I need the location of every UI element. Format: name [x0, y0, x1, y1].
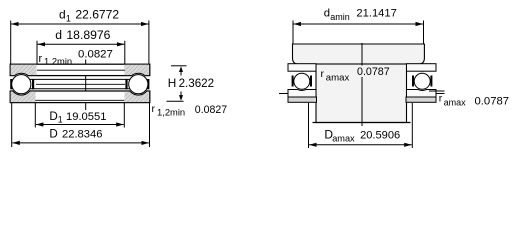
H bottom arrow — [179, 95, 183, 101]
svg-text:r: r — [152, 103, 156, 115]
leader line r12min (vertical centre-ish line through bearing) — [85, 60, 87, 111]
extension line damin left — [292, 21, 294, 45]
cage pocket left of right ball — [412, 76, 414, 87]
projected raceway line in bottom washer bore region — [35, 99, 124, 101]
cage pocket right of left ball — [310, 76, 312, 87]
svg-text:D: D — [49, 110, 57, 123]
bottom washer hatched right section — [125, 92, 149, 103]
H bottom leader line — [167, 100, 184, 102]
housing floor line — [313, 122, 411, 124]
svg-text:0.0827: 0.0827 — [195, 104, 228, 116]
svg-text:r: r — [439, 93, 443, 105]
extension line damin right — [423, 21, 425, 45]
projected ball equator line through bore — [36, 83, 125, 85]
ball right — [129, 75, 148, 94]
dimension line damin — [294, 23, 424, 25]
dimension line d — [38, 43, 125, 45]
cage upper line through bore — [30, 78, 131, 80]
svg-text:d: d — [59, 8, 66, 22]
svg-text:18.8976: 18.8976 — [66, 28, 110, 42]
label ramax left value backing — [355, 66, 393, 78]
cage pocket right of right ball — [430, 76, 432, 87]
dimension line D — [12, 142, 149, 144]
ball left — [12, 75, 31, 94]
svg-text:19.0551: 19.0551 — [66, 111, 106, 123]
cage pocket left of right ball — [125, 79, 127, 89]
svg-text:20.5906: 20.5906 — [360, 130, 400, 142]
svg-text:0.0787: 0.0787 — [357, 66, 390, 78]
housing shoulder line left — [279, 94, 288, 103]
svg-text:amax: amax — [444, 97, 467, 107]
housing seat block left (hatched) — [288, 97, 317, 102]
svg-text:2.3622: 2.3622 — [179, 77, 214, 90]
svg-text:1,2min: 1,2min — [157, 107, 185, 118]
svg-text:D: D — [49, 128, 57, 141]
extension line D right — [149, 103, 151, 147]
extension line d1 left — [10, 21, 12, 65]
cage lower line through bore — [30, 88, 131, 90]
H top arrow — [179, 66, 183, 72]
svg-text:amax: amax — [332, 133, 355, 143]
extension line D1 right — [123, 103, 125, 128]
extension line d left — [36, 41, 38, 76]
svg-text:r: r — [321, 68, 325, 80]
svg-text:0.0827: 0.0827 — [78, 49, 113, 61]
extension line D1 left — [34, 103, 36, 128]
raceway groove ring around left ball — [293, 72, 311, 90]
svg-text:1: 1 — [66, 14, 71, 24]
top washer right section — [407, 64, 437, 71]
svg-text:0.0787: 0.0787 — [475, 95, 510, 107]
cage pocket right of left ball — [32, 79, 34, 89]
raceway groove ring around right ball — [413, 72, 431, 90]
leader line ramax right — [429, 90, 445, 92]
top washer (shaft washer) — [10, 64, 150, 75]
top washer hatched left section — [11, 65, 37, 75]
extension line Damax right — [411, 103, 413, 148]
projected raceway line in top washer bore region — [37, 69, 125, 71]
H top leader line — [171, 65, 187, 67]
dimension line D1 — [36, 124, 124, 126]
housing shoulder line right — [436, 94, 445, 98]
svg-text:r: r — [39, 53, 43, 65]
top washer left section — [288, 64, 316, 71]
centre line — [361, 43, 363, 126]
extension line D left — [11, 103, 13, 147]
extension line d1 right — [148, 21, 150, 65]
bottom washer hatched left section — [11, 92, 36, 103]
cage pocket left of left ball — [10, 79, 12, 89]
shaft block — [293, 44, 425, 64]
ball left — [294, 73, 310, 89]
svg-text:d: d — [55, 28, 62, 42]
extension line d right — [124, 41, 126, 76]
extension line Damax left — [308, 103, 310, 148]
bottom washer (housing washer) — [10, 91, 150, 103]
svg-text:21.1417: 21.1417 — [356, 7, 396, 19]
svg-text:1: 1 — [58, 115, 63, 125]
raceway groove ring around right ball — [127, 73, 149, 95]
raceway groove ring around left ball — [10, 73, 32, 95]
bottom washer left section — [288, 90, 316, 98]
bottom washer right section — [407, 90, 437, 98]
ball right — [414, 73, 430, 89]
housing seat block right (hatched) — [406, 97, 436, 102]
svg-text:d: d — [324, 8, 330, 20]
cage pocket right of right ball — [147, 79, 149, 89]
svg-text:22.8346: 22.8346 — [62, 129, 102, 141]
svg-text:amin: amin — [330, 12, 350, 22]
dimension line d1 — [11, 23, 149, 25]
svg-text:amax: amax — [326, 73, 350, 84]
top washer hatched right section — [124, 65, 149, 75]
svg-text:H: H — [168, 76, 177, 90]
cage pocket left of left ball — [292, 76, 294, 87]
svg-text:22.6772: 22.6772 — [75, 7, 119, 21]
dimension line Damax — [309, 144, 412, 146]
shaft column through bore — [316, 64, 407, 123]
